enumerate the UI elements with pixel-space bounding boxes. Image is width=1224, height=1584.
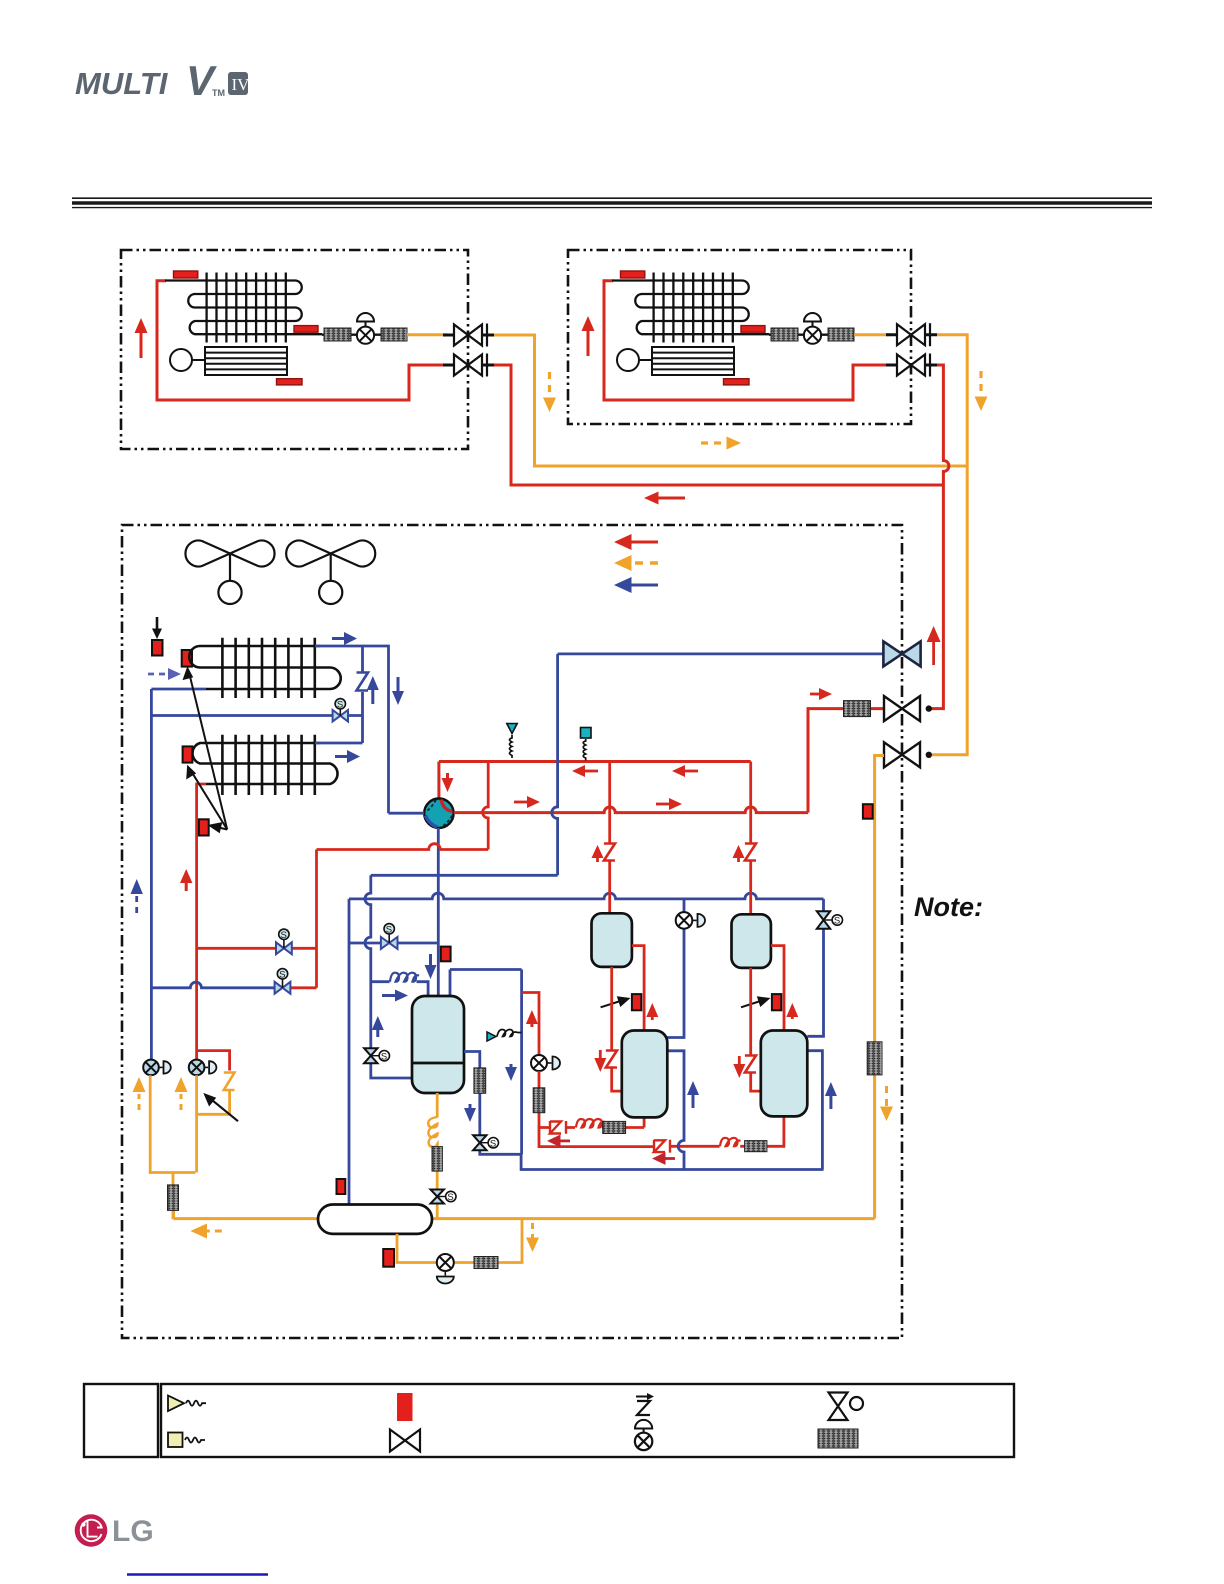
wire: subcooler right outlet	[464, 1052, 521, 1155]
sensor coil B	[182, 650, 192, 667]
wire: separator2 oil down with check	[751, 968, 761, 1091]
blue up arrow beside x370	[372, 1016, 384, 1037]
wire: orange inside from bottom valve	[875, 756, 884, 1219]
strainer IU1 b	[381, 328, 407, 341]
capillary coil oil return 1	[576, 1119, 605, 1128]
svg-text:S: S	[386, 925, 392, 936]
indoor unit 2 enclosure	[568, 250, 911, 424]
wire: subcooler top right to injection header	[450, 970, 522, 997]
orange dashed left arrow on bottom line	[190, 1224, 221, 1239]
annotation arrow discharge sensor 1	[601, 996, 631, 1007]
legend EEV symbol	[635, 1420, 652, 1450]
wire: separator1 oil down with check	[612, 967, 622, 1091]
blue right arrow coil1 outlet	[332, 632, 357, 645]
wire: EEV outlets orange joined	[150, 1075, 196, 1219]
wire: 4-way bottom port blue down to subcooler	[437, 828, 440, 996]
wire: separator1 to compressor1 top	[632, 946, 644, 1031]
EEV vapor injection comp1 (circle-X cap)	[676, 912, 705, 929]
check valve on branch	[357, 673, 369, 691]
svg-text:S: S	[447, 1192, 453, 1203]
wire: separator2 to compressor2 top	[771, 946, 784, 1031]
blue down arrow beside drop pipe	[392, 677, 404, 705]
strainer on liquid down	[432, 1147, 442, 1172]
wire: oil return branch y=1127	[539, 1117, 644, 1127]
red up arrow comp2 top	[786, 1003, 798, 1019]
red up arrow discharge 1	[592, 845, 604, 862]
svg-text:Note:: Note:	[914, 892, 983, 922]
sensor (lower) IU1	[277, 379, 303, 385]
sensor IU2 lower	[724, 379, 750, 385]
svg-text:S: S	[381, 1051, 387, 1062]
sensor accumulator top	[337, 1179, 346, 1194]
blue up arrow beside check valve	[367, 676, 379, 704]
wire: discharge riser comp1	[608, 762, 611, 914]
check valve oil sep2	[745, 1056, 756, 1073]
blue right arrow below feed line	[382, 990, 408, 1002]
wire: suction drop x823 to compressor2	[807, 899, 823, 1036]
legend main box	[161, 1384, 1014, 1457]
LG emblem	[75, 1514, 108, 1547]
check valve discharge 1	[604, 844, 615, 861]
fan IU2	[617, 347, 734, 375]
legend pressure sensor low (square with capillary)	[168, 1433, 205, 1448]
red up arrow left liquid line	[180, 869, 192, 891]
legend small box	[84, 1384, 158, 1457]
heat exchanger coil IU2	[612, 273, 857, 343]
EEV outdoor coil 1 (circle-X cap)	[143, 1060, 171, 1076]
legend shutoff valve bowtie	[390, 1430, 420, 1452]
wire: liquid injection red loop top	[522, 993, 539, 1056]
compressor 2	[761, 1031, 808, 1117]
orange dashed up arrow 2	[175, 1077, 188, 1110]
strainer on subcooler outlet	[474, 1068, 486, 1093]
strainer IU2 a	[771, 328, 798, 341]
flow legend orange dashed left arrow	[614, 555, 658, 571]
annotation arrow to sensor C	[186, 765, 227, 830]
strainer before middle valve	[844, 701, 871, 717]
solenoid (hourglass+S) on x823	[817, 911, 843, 929]
check valve discharge 2	[745, 844, 756, 861]
EEV injection (circle-X with cap)	[531, 1055, 560, 1071]
orange dashed down arrow right of IU2	[975, 371, 988, 411]
red left arrow on header 2	[672, 765, 698, 777]
blue dashed up arrow near left border	[131, 879, 143, 913]
sensor (pipe temp) IU1 top	[174, 271, 198, 278]
check valve oil sep1	[606, 1051, 617, 1068]
red left arrow below main line	[652, 1152, 675, 1165]
service port with capillary	[487, 1030, 522, 1042]
sensor (mid pipe) IU1	[294, 326, 318, 333]
red left arrow below oil branch	[547, 1135, 570, 1148]
strainer oil return	[474, 1257, 498, 1269]
wire: red liquid drop to outdoor middle valve	[932, 485, 944, 709]
red down arrow oil sep1	[594, 1050, 606, 1072]
capillary coil on liquid down	[428, 1117, 437, 1148]
sensor accumulator bottom	[383, 1249, 394, 1267]
wire: 4-way right port red line with jumps	[454, 807, 808, 813]
wire: discharge riser comp2	[749, 762, 752, 915]
legend strainer	[818, 1429, 858, 1448]
annotation arrow to sensor B	[183, 666, 228, 829]
capillary coil on feed line	[390, 973, 419, 982]
flow legend blue left arrow	[614, 577, 658, 593]
wire: red liquid main from IU1	[494, 365, 943, 485]
wire: main oil equalize line y=1146	[671, 1116, 784, 1146]
red up arrow comp1 top	[646, 1003, 658, 1020]
wire: subcooler liquid down orange	[436, 1093, 439, 1219]
electronic expansion valve IU2	[804, 313, 821, 344]
wire: oil solenoid line 2 red part	[290, 986, 316, 989]
sensor at subcooler top	[441, 947, 451, 962]
solenoid valve oil line 2	[275, 969, 291, 994]
svg-text:TM: TM	[212, 88, 225, 98]
annotation arrow to sensor D	[208, 822, 228, 833]
svg-text:S: S	[490, 1138, 496, 1149]
legend pressure sensor high (triangle with capillary)	[168, 1396, 206, 1412]
orange dashed up arrow 1	[133, 1077, 146, 1110]
strainer compressor2 oil	[745, 1141, 767, 1152]
wire: economizer gas return x521	[521, 970, 823, 1170]
wire: coil2 outlet to check branch	[315, 742, 363, 745]
wire: left suction header blue	[150, 689, 153, 1060]
blue up arrow beside x822	[825, 1082, 837, 1109]
wire: blue header y=899 with jumps	[349, 893, 824, 899]
accumulator vessel	[318, 1205, 432, 1234]
red up arrow discharge 2	[733, 845, 745, 862]
oil separator 1	[592, 913, 632, 967]
legend solenoid valve symbol	[829, 1393, 864, 1421]
sensor discharge 2	[772, 994, 781, 1010]
svg-text:S: S	[279, 970, 285, 981]
outdoor coil 2	[192, 735, 337, 795]
check valve main line	[654, 1140, 670, 1153]
wire: oil solenoid line 1	[197, 947, 317, 950]
sensor air temp A	[152, 640, 163, 656]
high pressure sensor (triangle)	[507, 724, 517, 759]
wire: orange bypass down to EEV2 outlet	[197, 1090, 230, 1114]
wire: liquid/gas red pipe loop IU1	[157, 281, 446, 400]
svg-text:MULTI: MULTI	[75, 66, 169, 101]
wire: 4-way left port blue	[389, 812, 425, 815]
sensor IU2 top	[621, 271, 645, 278]
horizontal rule	[72, 198, 1152, 207]
check valve bypass (orange)	[224, 1073, 235, 1091]
wire: comp2 lower blue to bottom line	[807, 1051, 822, 1170]
wire: coil2 liquid red down	[197, 784, 206, 1060]
red line outside gas valve going up	[927, 626, 941, 665]
wire: orange gas from IU2 down to outdoor bottom valve	[932, 335, 968, 755]
EEV oil return (circle-X with dome below)	[437, 1254, 454, 1284]
solenoid valve oil line 1	[276, 929, 292, 954]
annotation arrow at bypass	[203, 1093, 238, 1121]
red down arrow into 4-way	[442, 773, 454, 792]
wire: suction line to gas service valve	[558, 653, 884, 656]
flow legend red left arrow	[614, 534, 658, 550]
strainer left liquid	[168, 1185, 179, 1211]
wire: suction vertical x557 with jump	[552, 654, 558, 875]
red up arrow beside injection	[526, 1010, 538, 1027]
oil separator 2	[732, 914, 771, 968]
service valve IU1 liquid	[443, 354, 494, 377]
expansion valve (hourglass) on x370	[364, 1048, 389, 1063]
svg-text:S: S	[281, 930, 287, 941]
svg-text:IV: IV	[232, 75, 251, 94]
liquid service valve (bottom)	[884, 742, 932, 767]
red down arrow oil sep2	[733, 1056, 745, 1078]
wire: red cross line y=849.5	[317, 844, 489, 850]
expansion valve (hourglass+S) on liquid down	[431, 1190, 456, 1204]
gas service valve (filled)	[883, 641, 920, 666]
blue up arrow beside x684	[687, 1081, 699, 1108]
wire: orange gas main from IU1	[494, 335, 967, 466]
wire: coil1 bottom to left header	[151, 688, 206, 691]
4-way reversing valve	[424, 799, 453, 828]
red left arrow on header 1	[572, 765, 598, 777]
MULTI V IV logo	[75, 57, 250, 104]
wire: red riser to 4-way	[437, 762, 440, 800]
red up arrow IU2	[582, 316, 595, 356]
red right arrow at middle valve line	[810, 688, 832, 700]
fan 1 outdoor	[185, 541, 274, 605]
subcooler vessel	[412, 996, 464, 1093]
svg-text:S: S	[834, 916, 840, 927]
wire: comp1 lower blue with jump to bottom line	[666, 1051, 684, 1170]
orange dashed down arrow liquid	[880, 1086, 893, 1121]
outdoor unit enclosure	[122, 525, 902, 1338]
sensor discharge 1	[632, 994, 641, 1010]
wire: orange stub to service valve IU1	[407, 333, 447, 336]
footer blue line	[127, 1573, 268, 1575]
red right arrow above hot gas line 2	[656, 798, 682, 810]
orange dashed right arrow below IU2	[701, 437, 741, 450]
compressor 1	[622, 1031, 668, 1118]
fan IU1	[170, 347, 287, 375]
red up arrow IU1	[135, 318, 148, 358]
red right arrow above hot gas line 1	[514, 796, 540, 808]
svg-text:LG: LG	[112, 1515, 154, 1548]
blue down arrow at subcooler inlet	[425, 954, 437, 979]
orange dashed down arrow between units	[543, 372, 556, 412]
wire: orange stub to service valve IU2	[854, 333, 890, 336]
strainer injection	[533, 1088, 545, 1113]
wire: coil1 outlet blue	[315, 646, 389, 813]
fan 2 outdoor	[286, 541, 375, 605]
wire: red pipe loop IU2	[604, 281, 889, 400]
wire: discharge header red	[439, 760, 751, 763]
wire: defrost solenoid line y=715	[151, 714, 362, 717]
solenoid valve gas bypass	[381, 924, 398, 949]
wire: oil solenoid line 2 blue part with jump	[151, 982, 275, 988]
heat exchanger coil IU1	[165, 273, 410, 343]
legend sensor red rect	[397, 1393, 413, 1421]
wire: subcool coil feed line y=981	[371, 982, 428, 996]
service valve IU1 gas	[443, 324, 494, 347]
wire: orange bottom main line	[174, 1210, 875, 1218]
wire: red bypass jog	[197, 1051, 230, 1071]
solenoid valve on defrost line	[333, 699, 348, 722]
sensor IU2 mid	[741, 326, 765, 333]
wire: gas bypass solenoid line y=943	[349, 942, 438, 945]
wire: blue cross line y=875	[371, 874, 558, 877]
service valve IU2 gas	[886, 323, 937, 346]
blue down arrow beside x479	[464, 1104, 476, 1122]
legend check valve symbol	[636, 1393, 654, 1415]
wire: red riser x316	[315, 850, 318, 988]
capillary coil compressor2	[720, 1138, 741, 1147]
pressure switch (square)	[581, 728, 592, 761]
sensor coil C	[183, 746, 193, 762]
expansion valve (hourglass) subcooler outlet	[473, 1135, 498, 1150]
indoor unit 1 enclosure	[121, 250, 468, 449]
wire: oil return riser x489	[483, 762, 489, 850]
service valve IU2 liquid	[886, 354, 937, 377]
check valve oil return 1	[550, 1121, 566, 1134]
blue right arrow coil2 outlet	[335, 750, 360, 763]
strainer oil return 1	[603, 1121, 626, 1133]
sensor outside air + black down arrow	[152, 617, 162, 639]
svg-text:S: S	[337, 700, 343, 711]
wire: hot gas to middle service valve	[808, 709, 886, 813]
wire: check valve branch coil2 to coil1 outlet	[361, 646, 364, 743]
EEV outdoor coil 2 (circle-X cap)	[189, 1060, 217, 1076]
wire: suction down to accumulator x349	[348, 899, 351, 1205]
outdoor coil 1	[189, 638, 341, 698]
electronic expansion valve IU1	[357, 313, 374, 344]
strainer IU2 b	[828, 328, 854, 341]
wire: red from IU2 with jump over orange main	[937, 365, 949, 485]
blue dashed right arrow at sensor	[148, 668, 181, 680]
strainer liquid vertical	[867, 1042, 882, 1075]
strainer IU1 a	[324, 328, 351, 341]
orange dashed down arrow oil return	[526, 1223, 539, 1252]
wire: vertical x370 with jumps	[365, 875, 412, 1078]
red left arrow below liquid main	[644, 492, 685, 505]
wire: suction drop x684 to compressor1	[666, 899, 684, 1038]
wire: injection line mid	[539, 1071, 654, 1147]
wire: accumulator bottom oil return	[397, 1219, 522, 1263]
sensor coil D	[199, 819, 209, 835]
blue down arrow beside x521	[505, 1064, 517, 1081]
sensor liquid line	[863, 804, 873, 819]
annotation arrow discharge sensor 2	[741, 996, 771, 1007]
hot gas service valve (middle)	[884, 696, 932, 721]
